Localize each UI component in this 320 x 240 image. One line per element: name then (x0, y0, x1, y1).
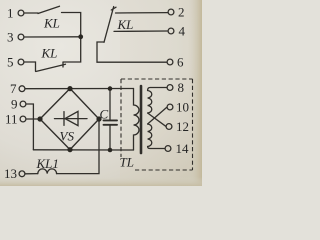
svg-text:7: 7 (10, 81, 17, 96)
terminal 11 (20, 116, 26, 122)
terminal 3 (18, 34, 24, 40)
wire terminal 6 to changeover common (97, 42, 167, 62)
wire terminal 11 lead (26, 118, 39, 120)
wire secondary lower to terminal 10 (cross) (148, 107, 167, 124)
terminal 5 (18, 59, 24, 65)
transformer primary winding (134, 89, 140, 151)
wire secondary upper to terminal 12 (cross) (148, 113, 166, 126)
svg-text:9: 9 (11, 97, 18, 112)
node VS right vertex (96, 116, 101, 121)
wire top rail (7 to transformer primary top) (25, 88, 133, 90)
changeover blade arrow tick (111, 7, 116, 10)
transformer secondary winding lower (148, 124, 165, 149)
svg-text:6: 6 (177, 55, 184, 70)
wire terminal 2 lead (116, 12, 168, 14)
wire terminal 4 lead (114, 30, 168, 32)
paper background (0, 0, 202, 186)
relay coil KL1 (38, 169, 57, 174)
svg-text:KL: KL (117, 17, 134, 32)
node VS left vertex (37, 116, 42, 121)
terminal 1 (18, 10, 24, 16)
svg-text:5: 5 (7, 55, 14, 70)
node capacitor top (108, 86, 113, 91)
diode cathode bar (63, 112, 65, 126)
svg-text:3: 3 (7, 30, 14, 45)
transformer core (140, 86, 143, 153)
wire vertical bus lower + to switch 5 (63, 37, 81, 62)
wire terminal 9 down to bottom rail (26, 104, 33, 150)
svg-text:14: 14 (176, 141, 190, 156)
bridge rectifier VS diamond (40, 89, 99, 150)
terminal 7 (19, 86, 25, 92)
svg-text:2: 2 (178, 5, 185, 20)
svg-text:8: 8 (178, 80, 185, 95)
diode triangle (65, 111, 78, 125)
switch 5 contact tick (62, 62, 64, 67)
svg-text:VS: VS (60, 129, 75, 144)
switch KL contact blade (terminal 1) (38, 6, 60, 13)
terminal 14 (165, 146, 171, 152)
terminal 2 (168, 9, 174, 15)
capacitor C plates (104, 119, 118, 121)
svg-text:C: C (100, 107, 109, 122)
svg-text:11: 11 (5, 112, 18, 127)
svg-text:13: 13 (4, 166, 17, 181)
wire switch 1 output to vertical bus (62, 13, 81, 37)
svg-text:KL1: KL1 (36, 156, 59, 171)
node junction bus/terminal3 (78, 34, 83, 39)
terminal 4 (168, 28, 174, 34)
svg-text:KL: KL (41, 46, 58, 61)
terminal 8 (167, 85, 173, 91)
diode lead inside VS (55, 118, 88, 120)
svg-text:4: 4 (179, 24, 186, 39)
wire terminal 5 lead with step (24, 62, 35, 71)
wire VS right vertex down to coil (57, 119, 100, 174)
terminal 6 (167, 59, 173, 65)
wire terminal 13 lead (25, 173, 37, 175)
node VS bottom vertex (67, 147, 72, 152)
wire terminal 3 lead (24, 36, 79, 38)
wire bottom rail (33, 149, 133, 151)
svg-text:TL: TL (120, 155, 134, 170)
svg-text:12: 12 (176, 119, 189, 134)
node VS top vertex (67, 86, 72, 91)
wire terminal 1 lead (24, 12, 38, 14)
terminal 12 (166, 124, 172, 130)
node capacitor bottom (108, 148, 113, 153)
svg-text:1: 1 (7, 6, 14, 21)
terminal 10 (167, 104, 173, 110)
svg-text:KL: KL (43, 16, 60, 31)
terminal 13 (19, 171, 25, 177)
transformer TL dashed enclosure (121, 79, 193, 170)
switch KL contact blade (terminal 5) (36, 64, 66, 71)
svg-text:10: 10 (176, 100, 189, 115)
capacitor C top lead (109, 89, 111, 120)
capacitor C bottom lead (109, 126, 111, 150)
transformer secondary winding upper (148, 88, 167, 114)
switch KL changeover blade (104, 7, 114, 43)
terminal 9 (20, 101, 26, 107)
